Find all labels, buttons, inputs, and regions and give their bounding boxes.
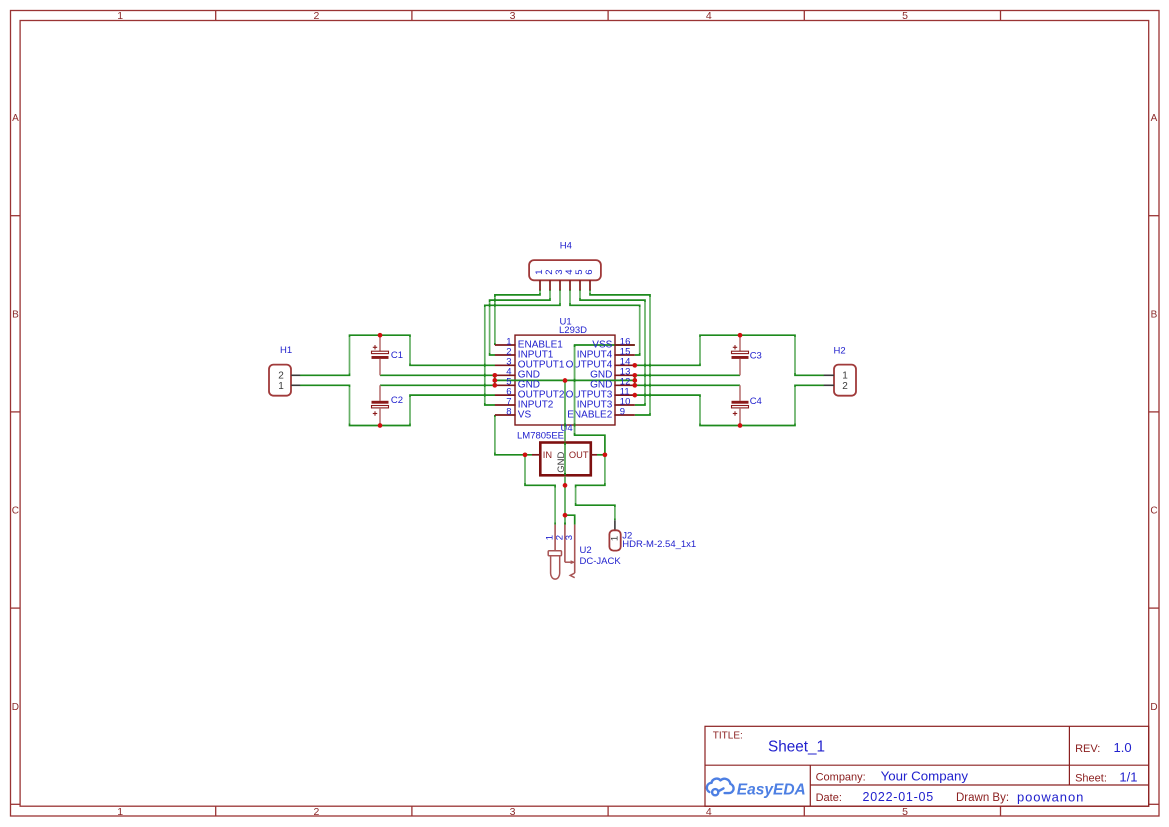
svg-text:4: 4	[706, 806, 712, 818]
svg-text:DC-JACK: DC-JACK	[580, 556, 622, 567]
svg-text:TITLE:: TITLE:	[713, 730, 743, 741]
svg-text:C: C	[12, 506, 19, 517]
svg-text:9: 9	[620, 406, 625, 417]
svg-text:8: 8	[506, 406, 511, 417]
svg-text:Company:: Company:	[816, 771, 866, 783]
svg-text:C3: C3	[750, 351, 762, 362]
svg-text:H2: H2	[834, 345, 846, 356]
svg-text:1: 1	[117, 10, 123, 22]
svg-text:4: 4	[706, 10, 712, 22]
svg-text:C2: C2	[391, 395, 403, 406]
svg-text:U2: U2	[580, 545, 592, 556]
svg-text:Date:: Date:	[816, 792, 842, 804]
svg-text:LM7805EE: LM7805EE	[517, 430, 564, 441]
svg-text:2022-01-05: 2022-01-05	[863, 790, 934, 804]
svg-text:2: 2	[842, 381, 848, 392]
svg-text:VS: VS	[518, 409, 532, 420]
svg-text:Your Company: Your Company	[881, 768, 969, 783]
svg-text:OUT: OUT	[569, 450, 589, 460]
svg-text:IN: IN	[543, 450, 552, 460]
svg-text:Sheet_1: Sheet_1	[768, 739, 825, 756]
svg-text:3: 3	[510, 10, 516, 22]
svg-text:HDR-M-2.54_1x1: HDR-M-2.54_1x1	[622, 539, 696, 550]
svg-text:1: 1	[117, 806, 123, 818]
svg-text:C: C	[1150, 506, 1157, 517]
svg-text:1: 1	[609, 536, 620, 541]
svg-text:B: B	[1151, 309, 1158, 320]
svg-text:6: 6	[584, 269, 595, 274]
svg-text:1.0: 1.0	[1114, 740, 1132, 755]
svg-text:H4: H4	[560, 240, 572, 251]
svg-text:A: A	[1151, 113, 1158, 124]
svg-text:D: D	[1150, 702, 1157, 713]
svg-text:2: 2	[313, 806, 319, 818]
svg-text:C1: C1	[391, 350, 403, 361]
svg-text:3: 3	[564, 535, 575, 540]
svg-text:1: 1	[278, 381, 284, 392]
svg-text:D: D	[12, 702, 19, 713]
svg-text:B: B	[12, 309, 19, 320]
svg-text:C4: C4	[750, 396, 762, 407]
svg-text:Drawn By:: Drawn By:	[956, 792, 1009, 804]
svg-text:L293D: L293D	[559, 325, 587, 336]
svg-text:A: A	[12, 113, 19, 124]
svg-text:EasyEDA: EasyEDA	[737, 781, 806, 798]
svg-text:Sheet:: Sheet:	[1075, 773, 1107, 785]
svg-text:2: 2	[278, 371, 284, 382]
svg-text:1/1: 1/1	[1119, 770, 1137, 785]
svg-text:5: 5	[902, 806, 908, 818]
svg-text:H1: H1	[280, 345, 292, 356]
svg-text:1: 1	[842, 371, 848, 382]
svg-text:2: 2	[313, 10, 319, 22]
svg-text:poowanon: poowanon	[1017, 789, 1084, 804]
svg-text:3: 3	[510, 806, 516, 818]
svg-text:5: 5	[902, 10, 908, 22]
svg-text:REV:: REV:	[1075, 743, 1100, 755]
